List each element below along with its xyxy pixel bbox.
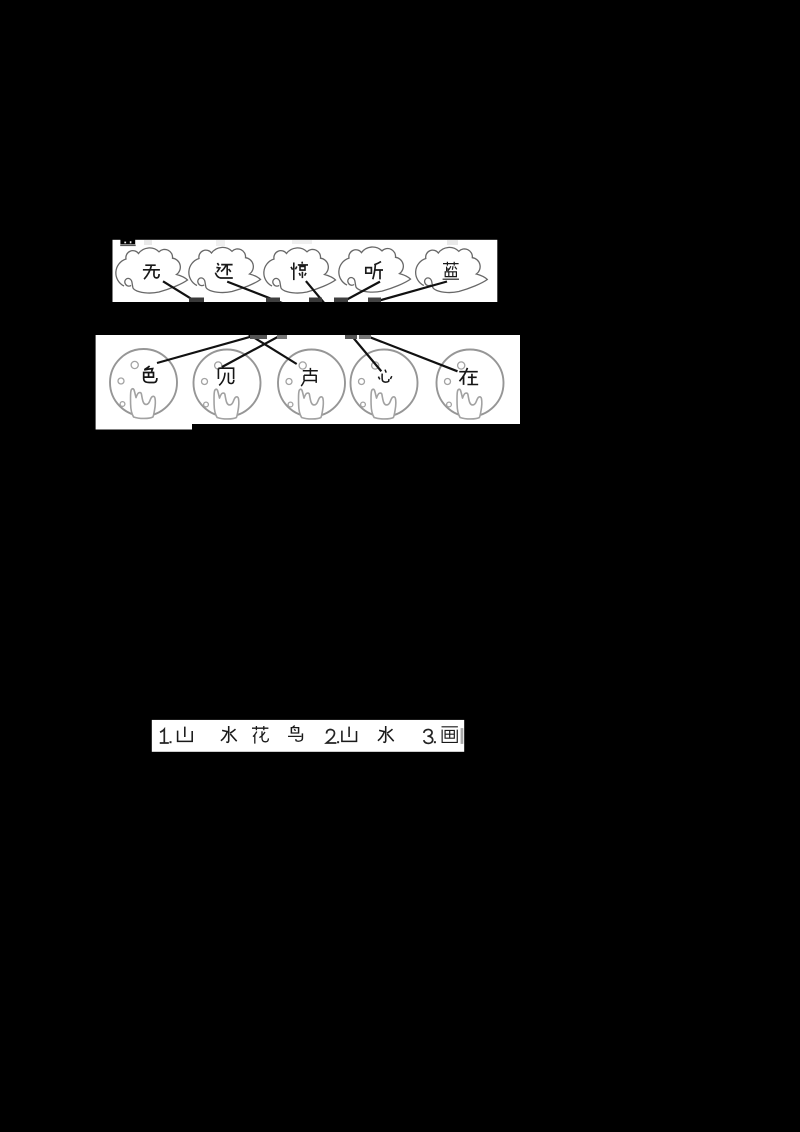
char 还 <box>215 263 232 278</box>
cloud 惊 <box>264 248 336 293</box>
char 见 <box>218 368 233 385</box>
answer char 山 <box>178 727 193 742</box>
matching line 还-在 <box>227 282 457 372</box>
white panel notch bottom-left of moon row <box>96 424 192 430</box>
matching line 听-见 <box>222 282 380 367</box>
cloud 还 <box>189 247 261 292</box>
black band covering line middles <box>0 302 800 335</box>
char 听 <box>366 262 383 280</box>
moon 在 <box>437 350 504 419</box>
matching line 蓝-色 <box>157 282 447 364</box>
matching line 惊-心 <box>306 281 381 371</box>
moon 心 <box>351 350 418 419</box>
char 蓝 <box>443 262 459 279</box>
char 色 <box>144 366 157 382</box>
char 无 <box>143 265 160 279</box>
answer char 水 <box>221 726 237 742</box>
cloud 蓝 <box>416 247 488 292</box>
jpeg smudge blocks at panel edges <box>144 240 458 339</box>
answer char 鸟 <box>288 726 302 742</box>
matching line 无-声 <box>163 281 297 364</box>
white panel: answer line <box>152 720 464 752</box>
cloud 无 <box>116 248 188 293</box>
answer label 2. <box>326 730 339 744</box>
answer char 水 <box>378 726 394 742</box>
answer label 3. <box>424 729 436 743</box>
answer char 花 <box>252 726 268 744</box>
cloud 听 <box>339 247 411 292</box>
cropped glyph fragment top-left of cloud panel <box>120 239 135 244</box>
char 声 <box>301 368 318 386</box>
moon 声 <box>278 350 345 419</box>
answer char 山 <box>342 727 357 742</box>
char 心 <box>378 370 391 383</box>
char 惊 <box>291 262 308 280</box>
char 在 <box>459 368 478 385</box>
white panel: cloud row <box>113 240 498 302</box>
cursor bar <box>461 728 464 744</box>
moon 色 <box>110 349 177 418</box>
moon 见 <box>194 350 261 419</box>
answer char 画 <box>442 727 458 743</box>
answer label 1. <box>161 729 172 743</box>
white panel: moon row <box>96 335 520 424</box>
